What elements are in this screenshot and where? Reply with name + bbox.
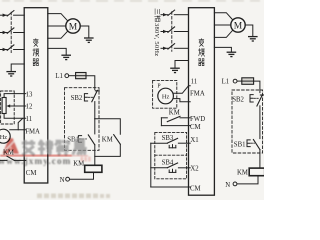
contact KM latch label [102, 136, 113, 143]
svg-text:11: 11 [191, 79, 198, 86]
ground (input side right) [170, 68, 180, 72]
terminal label 11 (right) [191, 79, 198, 86]
pushbutton SB2 actuator E [84, 94, 87, 101]
svg-text:12: 12 [26, 104, 33, 111]
pushbutton SB1 link [82, 138, 86, 140]
wire meter to terminal 11 (right) [173, 86, 190, 94]
wire output U2 [214, 13, 232, 20]
terminal label X2 [190, 165, 199, 172]
wire buttons common vertical [150, 143, 152, 187]
wire motor M2 earth [245, 25, 253, 36]
pushbutton SB1 NO contact [88, 135, 95, 145]
pushbutton SB2' label [232, 97, 244, 104]
watermark text 艾特贸易 [22, 140, 85, 155]
ghost caption at bottom [37, 194, 110, 199]
arrow L3 [3, 48, 7, 51]
watermark logo A [3, 138, 19, 154]
switch QS pole 3 [7, 45, 14, 50]
pushbutton SB2 label [71, 95, 83, 102]
wire output W [48, 31, 68, 38]
terminal label FWD [190, 116, 205, 123]
svg-text:KM: KM [169, 109, 180, 116]
arrow S [163, 30, 167, 33]
watermark small red marks [81, 157, 91, 162]
svg-text:Hz: Hz [0, 134, 7, 141]
wire meter common [0, 159, 7, 161]
terminal label CM (bottom) [190, 185, 201, 192]
potentiometer RP enclosure [1, 91, 15, 124]
wire SB1 top [94, 119, 96, 134]
wire terminal 11 down to meter wire [18, 119, 22, 130]
switch QS pole 1 [7, 11, 14, 16]
pushbutton SB2' link [254, 97, 258, 99]
terminal label N [60, 177, 65, 184]
wire coil to N (right) [237, 176, 258, 184]
fuse FU2 [242, 78, 254, 85]
svg-text:CM: CM [26, 170, 37, 177]
terminal N circle (right) [233, 182, 237, 186]
wire X1 right [178, 142, 190, 144]
terminal label FMA [25, 129, 40, 136]
contact KM run label [169, 109, 180, 116]
contact KM run blade [167, 116, 180, 121]
terminal label X1 [190, 137, 198, 144]
switch QS2 pole 3 [168, 44, 175, 49]
svg-text:KM: KM [73, 161, 84, 168]
wire fuse to control bus (right) [254, 81, 260, 93]
arrow R [163, 13, 167, 16]
wire RP bottom to terminal 11 [4, 114, 26, 119]
watermark underline [0, 155, 88, 157]
wire X2 right [178, 167, 190, 169]
pushbutton SB1' link [251, 142, 255, 144]
wire input phase L3 [0, 49, 24, 51]
contactor coil KM label [73, 161, 84, 168]
terminal label 12 [26, 104, 33, 111]
pushbutton SB3 blade [168, 138, 178, 143]
terminal label L1 (control) [55, 73, 63, 80]
arrow RP wiper [6, 104, 10, 107]
switch QS2 pole 1 [168, 10, 175, 15]
terminal label L1 (right control) [222, 79, 230, 86]
svg-text:13: 13 [26, 91, 33, 98]
svg-text:P: P [157, 84, 160, 90]
svg-text:380V, 50Hz: 380V, 50Hz [153, 23, 160, 56]
terminal label CM [26, 170, 37, 177]
switch QS2 pole 2 [168, 27, 175, 32]
svg-text:M: M [69, 22, 78, 32]
svg-text:N: N [225, 182, 230, 189]
terminal L1 circle (right) [233, 79, 237, 83]
contactor coil KM [85, 165, 102, 172]
ground (input side) [6, 72, 16, 76]
inverter U1 box (变频器) [24, 8, 48, 183]
wire to terminal CM [14, 159, 26, 161]
wire FWD right segment [180, 117, 190, 119]
wire input phase S [161, 31, 189, 33]
pushbutton SB3 actuator [169, 145, 176, 148]
svg-text:Hz: Hz [162, 94, 170, 101]
wire input phase L2 [0, 32, 24, 34]
wire X2 left [151, 167, 168, 169]
terminal L1 circle [65, 74, 69, 78]
pushbutton SB4 blade [168, 163, 178, 168]
wire input phase T [161, 47, 189, 49]
wire output V [48, 25, 66, 27]
svg-text:11: 11 [26, 116, 33, 123]
wire SB1 bottom to coil [94, 145, 96, 166]
switch QS pole 2 [7, 28, 14, 33]
inverter U2 box (变频器) [189, 8, 215, 196]
wire output V2 [214, 24, 230, 26]
wire meter to terminal FMA (right) [173, 99, 190, 102]
wire common to CM bottom [151, 186, 190, 188]
contact KM aux (meter circuit) label [3, 150, 14, 157]
wire motor M1 earth [80, 26, 89, 38]
svg-text:X1: X1 [190, 137, 198, 144]
supply label 三相380V、50Hz [153, 9, 161, 57]
wire output PE [48, 48, 66, 55]
wire input earth (right) [175, 61, 189, 69]
wire output PE2 [214, 47, 231, 52]
motor M1 label [69, 22, 78, 32]
pushbutton enclosure SA1 [65, 88, 100, 151]
pushbutton enclosure divider [155, 154, 187, 156]
wire SB1' to coil [259, 150, 261, 169]
contact KM aux blade [7, 156, 14, 160]
watermark url text [0, 156, 71, 166]
fuse FU1 [76, 73, 86, 79]
motor M2 [231, 18, 245, 32]
motor M1 [66, 19, 80, 33]
arrow L1 [3, 14, 7, 17]
scan crease at bottom [0, 197, 264, 199]
svg-text:L1: L1 [55, 73, 63, 80]
wire L1 to fuse FU2 [237, 80, 242, 82]
svg-text:SB1: SB1 [234, 142, 246, 149]
pushbutton SB2' NC contact [257, 95, 264, 106]
switch QS2 linkage [171, 12, 173, 52]
pushbutton SB1' NO contact [253, 140, 260, 150]
pushbutton SB1' actuator E [247, 140, 250, 147]
arrow T [163, 47, 167, 50]
wire L1 to fuse FU1 [69, 75, 76, 77]
svg-text:L1: L1 [222, 79, 230, 86]
svg-text:FWD: FWD [190, 116, 205, 123]
wire meter to terminal FMA [10, 129, 26, 131]
svg-text:N: N [60, 177, 65, 184]
wire FWD loop vertical [160, 118, 162, 126]
pushbutton enclosure SA3 [232, 90, 263, 153]
terminal label N (right) [225, 182, 230, 189]
ground (motor M1) [84, 38, 94, 42]
frequency meter PA1 (Hz) [0, 129, 10, 143]
terminal label CM (run) [190, 124, 201, 131]
contactor coil KM2 label [237, 169, 248, 176]
inverter U2 label 变频器 [199, 39, 205, 66]
terminal label 11 [26, 116, 33, 123]
meter enclosure label P [157, 84, 160, 90]
svg-text:www.jxmy.com: www.jxmy.com [0, 156, 71, 166]
svg-text:SB2: SB2 [71, 95, 83, 102]
svg-text:M: M [234, 21, 243, 31]
pushbutton SB4 label [162, 160, 174, 167]
pushbutton SB1 label [67, 136, 79, 143]
svg-text:CM: CM [190, 185, 201, 192]
ground (inverter U1 PE) [61, 55, 71, 59]
svg-text:CM: CM [190, 124, 201, 131]
frequency meter PA1 label [0, 134, 7, 141]
svg-text:KM: KM [102, 136, 113, 143]
wire output U [48, 14, 68, 21]
switch QS linkage [10, 12, 12, 52]
paper background [0, 0, 264, 200]
pushbutton SB2 link [88, 96, 93, 98]
wire SB2' down [259, 106, 261, 139]
motor M2 label [234, 21, 243, 31]
ground (inverter U2 PE) [227, 52, 237, 56]
potentiometer RP body [2, 98, 6, 114]
wire RP wiper to terminal 12 [9, 105, 25, 107]
wire CM run [161, 125, 190, 127]
svg-text:SB2: SB2 [232, 97, 244, 104]
wire input phase R [161, 14, 189, 16]
terminal label FMA (right) [190, 91, 205, 98]
wire FWD left segment [161, 117, 167, 119]
wire SB2 to junction [94, 102, 96, 119]
wire output W2 [214, 31, 232, 38]
wire KM contact to rejoin [95, 144, 121, 156]
pushbutton SB2 NC contact [92, 90, 99, 101]
contact KM latch blade [114, 135, 121, 145]
wire input earth [11, 64, 24, 71]
wire fuse to control bus [86, 76, 95, 90]
wire RP top to terminal 13 [4, 94, 26, 98]
pushbutton SB2' actuator E [250, 95, 253, 102]
ground (motor M2) [248, 37, 258, 41]
svg-text:KM: KM [237, 169, 248, 176]
wire X1 left [151, 142, 168, 144]
pushbutton SB4 actuator [169, 169, 176, 172]
terminal label 13 [26, 91, 33, 98]
contactor coil KM2 [249, 168, 265, 176]
svg-text:FMA: FMA [190, 91, 205, 98]
wire coil to N [70, 172, 94, 179]
svg-text:X2: X2 [190, 165, 199, 172]
pushbutton SB1' label [234, 142, 246, 149]
arrow L2 [3, 31, 7, 34]
meter enclosure P [153, 80, 177, 108]
frequency meter PA2 label [162, 94, 170, 101]
frequency meter PA2 (Hz) [158, 88, 174, 104]
inverter U1 label 变频器 [33, 39, 39, 66]
pushbutton enclosure SA2 [155, 132, 187, 178]
wire branch to KM contact [95, 119, 121, 135]
wire input phase L1 [0, 14, 24, 16]
ghost cropped text at top edge [2, 0, 260, 2]
terminal N circle [66, 177, 70, 181]
svg-text:FMA: FMA [25, 129, 40, 136]
pushbutton SB3 label [162, 135, 174, 142]
pushbutton SB1 actuator E [78, 136, 81, 143]
